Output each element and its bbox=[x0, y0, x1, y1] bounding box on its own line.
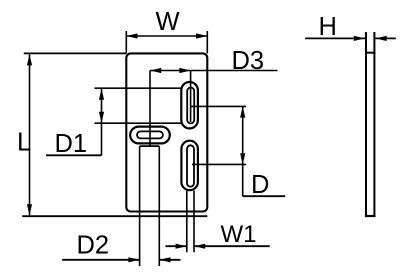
dimension L bottom arrowhead bbox=[27, 204, 32, 215]
upper slot inner outline bbox=[187, 88, 194, 124]
svg-text:D3: D3 bbox=[232, 47, 265, 75]
svg-text:W1: W1 bbox=[221, 221, 257, 248]
dimension H right line bbox=[376, 37, 396, 39]
side view left edge bbox=[365, 32, 367, 216]
plate front view outline bbox=[126, 53, 207, 211]
dimension W1 right-pointing arrowhead bbox=[176, 244, 187, 249]
dimension W right arrowhead bbox=[196, 33, 207, 38]
dimension W line bbox=[126, 35, 207, 37]
dimension W extension line right bbox=[206, 31, 208, 53]
dimension D1 lower extension line bbox=[95, 122, 183, 124]
dimension D2 right line bbox=[159, 259, 180, 261]
dimension L bottom extension line bbox=[22, 215, 207, 217]
dimension D leader underline bbox=[243, 195, 286, 197]
dimension D lower extension line bbox=[192, 163, 246, 165]
dimension W1 right extension line bbox=[193, 191, 195, 253]
svg-text:L: L bbox=[17, 129, 31, 157]
dimension D upper extension line bbox=[191, 105, 247, 107]
svg-text:D: D bbox=[251, 171, 269, 199]
dimension D1 leader underline bbox=[46, 154, 102, 156]
svg-text:H: H bbox=[319, 13, 337, 41]
dimension L top extension line bbox=[24, 52, 127, 54]
middle slot lower edge line bbox=[140, 145, 160, 147]
dimension D2 right extension line bbox=[158, 146, 160, 266]
dimension D2 left extension line bbox=[139, 146, 141, 266]
dimension D3 extension line at upper slot center bbox=[190, 71, 192, 123]
middle slot inner outline bbox=[137, 131, 163, 138]
dimension D down arrowhead bbox=[240, 153, 245, 164]
upper slot outer outline bbox=[181, 82, 198, 128]
dimension D3 right arrowhead bbox=[179, 68, 190, 73]
dimension W1 left line bbox=[166, 245, 187, 247]
dimension H right-pointing arrowhead bbox=[354, 36, 365, 41]
lower slot outer outline bbox=[181, 141, 198, 191]
dimension W1 left extension line bbox=[186, 191, 188, 253]
dimension D1 upper extension line bbox=[95, 87, 183, 89]
middle slot outer outline bbox=[130, 127, 170, 144]
dimension L top arrowhead bbox=[27, 54, 32, 65]
dimension D3 extension line at middle slot center bbox=[149, 71, 151, 147]
dimension D2 left line bbox=[62, 259, 139, 261]
dimension H left-pointing arrowhead bbox=[376, 36, 387, 41]
dimension W left arrowhead bbox=[126, 33, 137, 38]
dimension D2 right-pointing arrowhead bbox=[128, 257, 139, 262]
dimension D1 up arrowhead bbox=[99, 89, 104, 100]
lower slot inner outline bbox=[187, 145, 194, 186]
dimension W1 right line bbox=[194, 245, 270, 247]
dimension D3 left arrowhead bbox=[150, 68, 161, 73]
dimension D up arrowhead bbox=[240, 106, 245, 117]
svg-text:D2: D2 bbox=[77, 232, 110, 260]
dimension W extension line left bbox=[125, 31, 127, 53]
dimension L line bbox=[29, 54, 31, 215]
dimension D1 down arrowhead bbox=[99, 112, 104, 123]
dimension D2 left-pointing arrowhead bbox=[159, 257, 170, 262]
dimension D3 line bbox=[150, 70, 278, 72]
dimension W1 left-pointing arrowhead bbox=[194, 244, 205, 249]
side view bottom edge bbox=[365, 215, 376, 217]
side view top edge bbox=[365, 52, 375, 54]
dimension D line and leader bbox=[242, 106, 244, 196]
dimension H left line bbox=[305, 37, 365, 39]
svg-text:D1: D1 bbox=[55, 130, 88, 158]
dimension D1 line and leader bbox=[101, 89, 103, 156]
svg-text:W: W bbox=[155, 8, 179, 36]
side view right edge bbox=[373, 32, 375, 216]
